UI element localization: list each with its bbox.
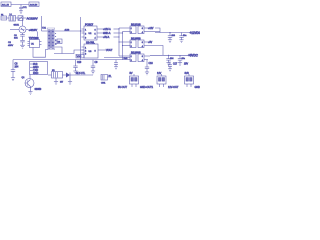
- transistor Q1: [25, 79, 34, 88]
- transformer T1: [47, 28, 54, 50]
- svg-text:ACN-IN: ACN-IN: [30, 4, 38, 7]
- svg-text:3: 3: [85, 37, 87, 39]
- svg-text:CY1: CY1: [23, 7, 28, 9]
- capacitor C8: [11, 60, 19, 78]
- wire: [155, 28, 160, 33]
- svg-text:U1: U1: [31, 44, 35, 46]
- net label GND row: [100, 32, 123, 35]
- svg-text:+12VDC: +12VDC: [190, 31, 201, 35]
- ground: [28, 92, 32, 95]
- svg-text:C8: C8: [15, 64, 19, 66]
- svg-text:Q1: Q1: [22, 77, 26, 79]
- ground: [178, 63, 182, 66]
- wire vertical feed: [80, 17, 82, 60]
- net label L-IN box: [1, 2, 11, 7]
- svg-text:1: 1: [131, 42, 133, 44]
- junction: [168, 55, 169, 56]
- capacitor C12: [179, 33, 187, 40]
- wire: [30, 87, 32, 92]
- capacitor C15: [114, 60, 118, 67]
- svg-text:M7: M7: [60, 82, 64, 84]
- svg-text:+5V-A: +5V-A: [103, 36, 110, 39]
- ground: [179, 40, 183, 43]
- svg-text:TX1: TX1: [42, 27, 47, 29]
- svg-text:10u: 10u: [183, 35, 187, 37]
- wire: [69, 78, 71, 82]
- ground: [68, 82, 72, 85]
- svg-text:CN1: CN1: [101, 83, 106, 85]
- svg-text:25V: 25V: [184, 64, 189, 66]
- svg-text:4: 4: [142, 32, 144, 34]
- junction: [80, 30, 81, 31]
- wire: [37, 32, 39, 37]
- wire: [41, 16, 43, 31]
- relay K1: [48, 70, 63, 78]
- net label box VCC: [76, 54, 84, 58]
- svg-text:+310V: +310V: [29, 28, 39, 32]
- capacitor CY1: [19, 5, 27, 11]
- svg-text:1: 1: [131, 28, 133, 30]
- junction: [118, 28, 119, 29]
- terminal block P3: [185, 72, 194, 87]
- fuse F1: [1, 14, 7, 20]
- svg-text:S8050: S8050: [35, 89, 42, 91]
- wire GND long rail: [13, 59, 123, 61]
- capacitor C13: [166, 55, 174, 62]
- svg-text:2: 2: [85, 50, 87, 52]
- connector CN1: [101, 75, 112, 85]
- varistor RV1: [18, 16, 23, 21]
- svg-text:4: 4: [142, 46, 144, 48]
- svg-text:6: 6: [142, 28, 144, 30]
- svg-text:RLY-CTL: RLY-CTL: [76, 73, 86, 75]
- svg-text:5V: 5V: [130, 72, 133, 75]
- IC U1 TNY268: [28, 36, 42, 47]
- svg-text:+12V: +12V: [148, 28, 154, 30]
- svg-text:104: 104: [170, 58, 174, 60]
- svg-text:C10: C10: [77, 62, 82, 64]
- svg-text:4: 4: [95, 37, 97, 39]
- ground: [19, 11, 23, 14]
- svg-text:400V: 400V: [8, 45, 14, 47]
- IC U3 regulator: [82, 41, 107, 58]
- wire: [63, 74, 67, 76]
- bus vertical A: [118, 28, 120, 56]
- capacitor C16: [145, 60, 154, 72]
- diode D2: [57, 39, 62, 44]
- svg-text:2: 2: [131, 32, 133, 34]
- svg-text:6: 6: [95, 29, 97, 31]
- wire: [26, 29, 29, 31]
- output wire 5V: [150, 54, 188, 56]
- wire: [11, 4, 29, 6]
- svg-text:+5V: +5V: [148, 42, 153, 44]
- connector J2: [30, 62, 48, 76]
- ground: [91, 71, 95, 74]
- svg-text:ACL-IN: ACL-IN: [2, 4, 10, 7]
- DCDC module M2: [119, 37, 163, 56]
- svg-text:2: 2: [85, 33, 87, 35]
- ground: [11, 78, 15, 81]
- wire label row: [73, 73, 94, 75]
- output wire 12V: [155, 32, 190, 34]
- svg-text:2: 2: [131, 60, 133, 62]
- svg-text:VCC: VCC: [77, 56, 82, 58]
- DCDC module M1: [119, 23, 160, 35]
- svg-text:C1: C1: [14, 35, 18, 37]
- terminal block P1: [130, 72, 139, 87]
- wire: [54, 50, 84, 54]
- svg-text:2: 2: [131, 46, 133, 48]
- svg-text:RXD: RXD: [33, 72, 38, 75]
- svg-text:4: 4: [142, 60, 144, 62]
- capacitor C11: [168, 33, 176, 40]
- choke L1: [9, 14, 16, 21]
- svg-text:1: 1: [131, 56, 133, 58]
- svg-text:+12V-A: +12V-A: [103, 28, 111, 31]
- wire: [55, 78, 57, 82]
- svg-text:C2: C2: [8, 42, 12, 44]
- svg-text:VOUT: VOUT: [106, 50, 113, 52]
- svg-text:6: 6: [142, 56, 144, 58]
- svg-text:1: 1: [85, 47, 87, 49]
- DCDC module M3: [119, 51, 150, 63]
- capacitor C10: [73, 60, 82, 71]
- capacitor C9: [91, 60, 98, 71]
- svg-text:12V-OUT: 12V-OUT: [168, 86, 179, 89]
- IC U2 PC817: [82, 23, 100, 40]
- wire: [22, 33, 24, 35]
- net label +12V row: [100, 28, 120, 31]
- ground: [114, 67, 118, 70]
- ground: [73, 71, 77, 74]
- svg-text:104: 104: [15, 66, 20, 68]
- wire: [42, 30, 49, 32]
- capacitor C2 400V: [8, 40, 25, 46]
- wire: [55, 47, 62, 54]
- svg-text:10u: 10u: [182, 58, 186, 60]
- svg-text:3: 3: [85, 53, 87, 55]
- svg-text:AC220V: AC220V: [27, 17, 39, 21]
- ground: [54, 82, 58, 85]
- ground: [168, 69, 172, 72]
- svg-text:GBJ1: GBJ1: [14, 24, 20, 26]
- wire: [7, 17, 10, 19]
- net label +5V row: [100, 36, 120, 39]
- wire: [33, 48, 48, 58]
- svg-text:GND-A: GND-A: [103, 32, 111, 35]
- wire: [55, 30, 84, 32]
- svg-text:3V3: 3V3: [185, 72, 190, 75]
- svg-text:+5VDC: +5VDC: [188, 54, 199, 58]
- svg-text:U3: U3: [89, 51, 93, 53]
- wire 3V3 row: [104, 57, 130, 59]
- svg-text:104: 104: [14, 38, 18, 40]
- wire: [10, 29, 19, 31]
- wire: [22, 18, 24, 26]
- svg-text:C17: C17: [173, 64, 178, 66]
- diode D1: [60, 73, 73, 84]
- wire: [29, 75, 31, 79]
- ground: [20, 45, 25, 48]
- svg-text:GND: GND: [195, 86, 201, 89]
- bridge rectifier B1: [19, 26, 26, 33]
- terminal block P2: [157, 72, 166, 87]
- bus vertical B: [122, 32, 124, 60]
- svg-text:2: 2: [55, 44, 57, 46]
- junction: [169, 32, 170, 33]
- capacitor C17: [168, 62, 178, 69]
- svg-text:U2: U2: [89, 33, 93, 35]
- svg-text:1: 1: [85, 29, 87, 31]
- svg-text:5V-OUT: 5V-OUT: [118, 86, 128, 89]
- svg-text:104: 104: [172, 35, 176, 37]
- svg-text:C16: C16: [149, 63, 154, 65]
- svg-text:8: 8: [95, 50, 97, 52]
- svg-text:6: 6: [142, 42, 144, 44]
- svg-text:C9: C9: [95, 62, 99, 64]
- capacitor C14: [178, 55, 186, 62]
- svg-text:GND-OUT1: GND-OUT1: [140, 86, 154, 89]
- ground: [145, 72, 149, 75]
- svg-text:5: 5: [95, 33, 97, 35]
- wire: [16, 17, 27, 19]
- net label N-IN box: [29, 2, 39, 7]
- svg-text:12V: 12V: [157, 72, 162, 75]
- capacitor C1: [14, 35, 25, 41]
- junction dots: [55, 33, 56, 34]
- ground: [168, 40, 172, 43]
- ground: [166, 63, 170, 66]
